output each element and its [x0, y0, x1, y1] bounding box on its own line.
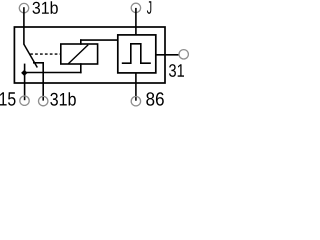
- terminal 31b (bottom): [39, 96, 48, 105]
- relay outline box: [14, 27, 165, 83]
- coil bottom stub: [80, 63, 82, 73]
- wire pulse unit to terminal 86: [135, 73, 137, 101]
- switch arm S: [24, 44, 37, 67]
- pulse generator box: [118, 35, 156, 73]
- coil top stub: [80, 39, 82, 45]
- label 31b (top): [33, 1, 58, 14]
- relay coil K: [61, 44, 98, 64]
- label 31b (bottom): [50, 92, 76, 105]
- wire terminal 31b to switch pivot: [23, 7, 25, 44]
- terminal 86 (bottom): [131, 97, 140, 106]
- junction diamond: [21, 70, 27, 76]
- wire terminal 15 riser: [24, 64, 26, 101]
- terminal J (top): [131, 3, 140, 12]
- wire pulse unit to terminal 31 (right): [156, 54, 179, 56]
- wire coil to pulse unit: [80, 39, 118, 41]
- label 86: [146, 92, 164, 105]
- terminal 15 (bottom): [20, 96, 29, 105]
- bus wire to coil: [24, 72, 82, 74]
- coil diagonal: [68, 45, 88, 64]
- switch fixed contact bar: [33, 62, 44, 64]
- dashed actuating link: [30, 53, 61, 55]
- label J: [147, 1, 151, 14]
- wire contact to terminal 31b (bottom): [42, 63, 44, 101]
- label 15: [0, 92, 15, 105]
- pulse waveform symbol: [122, 44, 151, 63]
- terminal 31b (top): [19, 3, 28, 12]
- wire terminal J to pulse unit: [135, 8, 137, 35]
- label 31 (right): [169, 64, 184, 77]
- terminal 31 (right): [179, 50, 188, 59]
